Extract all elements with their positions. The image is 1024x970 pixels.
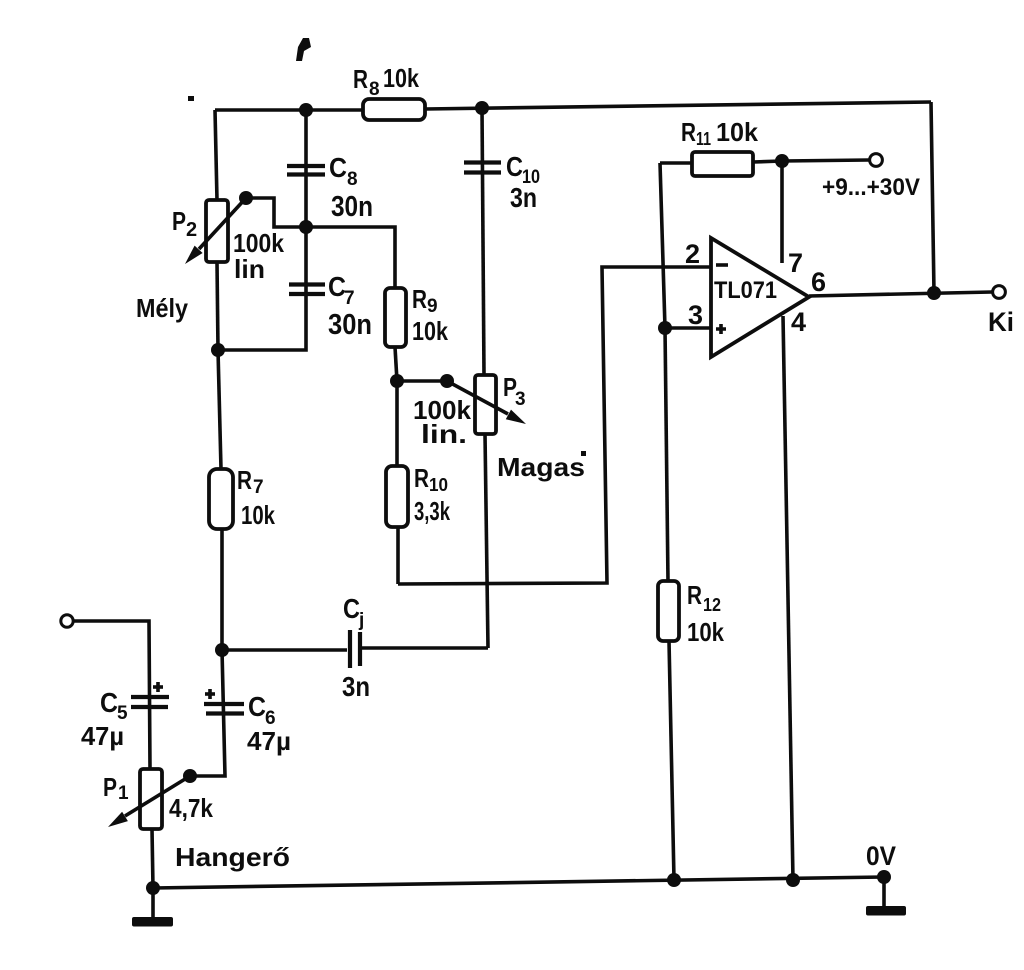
svg-text:R: R — [412, 284, 427, 314]
svg-text:1: 1 — [118, 783, 129, 804]
svg-text:lin: lin — [234, 254, 265, 284]
svg-text:7: 7 — [253, 477, 264, 498]
svg-text:Ki: Ki — [988, 307, 1014, 337]
svg-text:3: 3 — [688, 300, 703, 330]
svg-text:R: R — [687, 580, 702, 610]
svg-text:j: j — [358, 610, 364, 631]
svg-text:Hangerő: Hangerő — [175, 842, 290, 872]
svg-text:4: 4 — [791, 307, 806, 337]
svg-text:C: C — [100, 687, 118, 718]
svg-text:8: 8 — [369, 79, 380, 100]
svg-text:30n: 30n — [328, 309, 372, 341]
svg-text:4,7k: 4,7k — [169, 793, 213, 823]
svg-text:3: 3 — [515, 389, 526, 410]
svg-text:2: 2 — [685, 239, 700, 269]
svg-text:6: 6 — [811, 267, 826, 297]
svg-text:P: P — [172, 206, 186, 236]
svg-text:R: R — [414, 463, 429, 493]
svg-text:3n: 3n — [510, 182, 537, 213]
svg-text:C: C — [343, 593, 360, 624]
svg-text:R: R — [681, 117, 696, 147]
svg-text:3,3k: 3,3k — [414, 496, 450, 526]
svg-text:12: 12 — [703, 595, 721, 615]
svg-text:3n: 3n — [342, 671, 370, 702]
svg-text:9: 9 — [427, 296, 438, 317]
svg-text:R: R — [353, 64, 368, 94]
svg-text:Mély: Mély — [136, 293, 188, 323]
svg-text:0V: 0V — [866, 841, 896, 871]
svg-text:47µ: 47µ — [247, 726, 291, 756]
svg-text:10k: 10k — [687, 617, 724, 647]
svg-text:10k: 10k — [241, 500, 275, 530]
svg-text:R: R — [237, 465, 252, 495]
svg-text:10: 10 — [429, 475, 448, 495]
svg-text:10k: 10k — [716, 117, 759, 147]
svg-text:30n: 30n — [331, 191, 373, 223]
svg-text:10k: 10k — [412, 316, 448, 346]
svg-text:Magas: Magas — [497, 452, 585, 482]
svg-text:11: 11 — [696, 129, 711, 149]
svg-text:TL071: TL071 — [714, 277, 777, 304]
svg-text:8: 8 — [347, 169, 358, 190]
svg-text:7: 7 — [788, 248, 803, 278]
svg-text:C: C — [506, 151, 523, 182]
svg-text:C: C — [329, 152, 347, 183]
svg-text:10k: 10k — [383, 63, 419, 93]
svg-text:2: 2 — [186, 219, 197, 241]
svg-text:+9...+30V: +9...+30V — [822, 174, 920, 201]
svg-text:P: P — [103, 772, 117, 802]
svg-text:lin.: lin. — [421, 419, 467, 449]
svg-text:47µ: 47µ — [81, 721, 124, 751]
svg-text:7: 7 — [344, 288, 355, 309]
svg-text:C: C — [248, 691, 266, 722]
